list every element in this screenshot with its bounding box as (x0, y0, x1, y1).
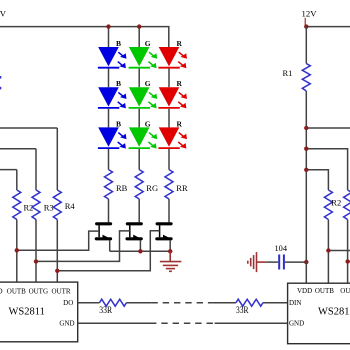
svg-text:R: R (177, 119, 183, 128)
wire stub OUTG net (348, 261, 350, 263)
wire left 12V rail (0, 27, 169, 47)
wire VDD pin (305, 262, 307, 283)
wire (108, 69, 110, 88)
wire (138, 149, 140, 170)
resistor R2 (13, 170, 34, 283)
wire VDD feed R2 (0, 169, 17, 171)
wire DIN (263, 302, 288, 304)
wire (168, 149, 170, 170)
svg-text:G: G (145, 79, 151, 88)
LED R2 (158, 79, 187, 108)
svg-text:33R: 33R (99, 305, 112, 315)
junction (304, 168, 308, 172)
resistor R2 right a (324, 190, 341, 283)
ground (160, 251, 181, 271)
LED B1 (98, 39, 127, 68)
svg-text:R4: R4 (65, 201, 76, 211)
svg-text:B: B (116, 119, 121, 128)
junction rail right (304, 24, 308, 28)
svg-text:G: G (145, 119, 151, 128)
svg-text:12V: 12V (302, 9, 318, 19)
wire base G (36, 231, 130, 262)
resistor R1 left fragment (0, 76, 1, 89)
wire (108, 149, 110, 170)
svg-text:OUTB: OUTB (7, 288, 26, 296)
ground cap (rotated) (248, 252, 266, 272)
wire (108, 109, 110, 128)
svg-text:R: R (177, 79, 183, 88)
junction (345, 259, 349, 263)
wire DO (78, 302, 100, 304)
junction base R riser (55, 269, 59, 273)
op-amp U1 left WS2811 (0, 282, 78, 342)
wire (168, 199, 170, 222)
wire GND right (215, 322, 288, 324)
svg-text:RB: RB (116, 183, 128, 193)
op-amp U2 right WS2811 (288, 283, 350, 344)
junction base G riser (34, 259, 38, 263)
svg-text:DO: DO (63, 299, 73, 307)
svg-text:R1: R1 (283, 68, 293, 78)
svg-text:GND: GND (289, 319, 304, 327)
LED R3 (158, 119, 187, 148)
resistor 33R left (99, 299, 126, 315)
resistor 33R right (236, 299, 263, 315)
wire GND left (78, 322, 150, 324)
svg-text:104: 104 (275, 243, 288, 253)
junction (304, 147, 308, 151)
wire VDD branch to R2b (306, 149, 347, 190)
wire VDD feed R3 (0, 148, 36, 150)
svg-text:RR: RR (176, 183, 188, 193)
wire dashed GND (150, 322, 215, 324)
wire emitter bus (110, 250, 171, 252)
junction rail-B (106, 24, 110, 28)
resistor R4 (53, 128, 75, 282)
svg-text:RG: RG (146, 183, 158, 193)
LED B3 (98, 119, 127, 148)
resistor RG (135, 170, 158, 199)
wire VDD branch to R2a (306, 170, 328, 190)
resistor R2 right b (344, 190, 350, 283)
wire VDD feed R4 (0, 127, 57, 129)
junction cap-VDD (304, 260, 308, 264)
capacitor C 104 (266, 243, 306, 270)
wire dashed DO (151, 302, 212, 304)
svg-text:GND: GND (59, 320, 74, 328)
svg-text:OUTG: OUTG (340, 287, 350, 295)
resistor RB (105, 170, 128, 199)
power label 12V right (302, 9, 318, 27)
wire G column drop (138, 27, 140, 47)
wire VDD branch top (306, 127, 350, 129)
wire (168, 109, 170, 128)
wire B column drop (108, 27, 110, 47)
resistor R3 (32, 149, 54, 282)
svg-text:OUTR: OUTR (51, 288, 70, 296)
LED G3 (129, 119, 158, 148)
junction rail-G (137, 24, 141, 28)
resistor RR (165, 170, 188, 199)
svg-text:B: B (116, 79, 121, 88)
wire (138, 69, 140, 88)
svg-text:OUTG: OUTG (29, 288, 48, 296)
wire (108, 199, 110, 222)
svg-text:33R: 33R (236, 305, 249, 315)
wire stub OUTB net (328, 250, 350, 252)
transistor QG (127, 224, 141, 252)
wire (138, 109, 140, 128)
junction emitter gnd (168, 249, 172, 253)
transistor QR (157, 224, 171, 252)
svg-text:VDD: VDD (297, 287, 312, 295)
junction (326, 248, 330, 252)
svg-text:G: G (145, 39, 151, 48)
svg-text:DIN: DIN (289, 299, 301, 307)
svg-text:WS2811: WS2811 (318, 307, 350, 318)
junction (304, 126, 308, 130)
wire right rail (306, 26, 350, 28)
svg-text:R: R (177, 39, 183, 48)
LED B2 (98, 79, 127, 108)
svg-text:VDD: VDD (0, 288, 3, 296)
svg-text:R2: R2 (331, 198, 341, 208)
svg-text:OUTB: OUTB (315, 287, 334, 295)
wire (168, 69, 170, 88)
junction base B riser (15, 248, 19, 252)
svg-text:12V: 12V (0, 9, 7, 19)
wire (213, 302, 236, 304)
LED G1 (129, 39, 158, 68)
svg-text:R3: R3 (44, 203, 54, 213)
junction emitter G (138, 249, 142, 253)
wire (127, 302, 152, 304)
LED G2 (129, 79, 158, 108)
svg-text:B: B (116, 39, 121, 48)
wire (138, 199, 140, 222)
resistor R1 (283, 27, 311, 263)
transistor QB (96, 224, 110, 252)
LED R1 (158, 39, 187, 68)
svg-text:WS2811: WS2811 (9, 307, 45, 318)
wire base B (17, 231, 99, 250)
wire base R (57, 231, 159, 271)
